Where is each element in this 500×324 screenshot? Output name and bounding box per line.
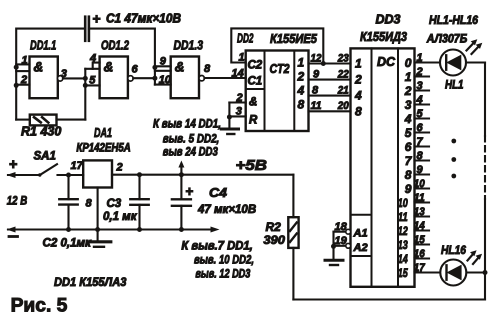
svg-text:8: 8 — [204, 63, 211, 75]
wire DD3 output 5 stub pin 6 — [415, 131, 430, 133]
svg-text:DD1.1: DD1.1 — [30, 39, 56, 53]
resistor R2 — [263, 217, 298, 248]
LED HL16 — [415, 245, 486, 286]
svg-text:14: 14 — [232, 68, 244, 80]
svg-text:13: 13 — [414, 206, 425, 218]
svg-text:0: 0 — [405, 56, 412, 70]
svg-text:15: 15 — [398, 266, 408, 280]
svg-text:DD3: DD3 — [376, 13, 401, 27]
svg-text:R1 430: R1 430 — [21, 125, 61, 139]
svg-text:&: & — [104, 60, 114, 75]
ground DD2 R inputs — [221, 129, 238, 134]
pin 3 DD1.1 output bubble — [58, 68, 67, 81]
svg-text:6: 6 — [417, 122, 424, 134]
svg-text:21: 21 — [337, 84, 349, 96]
terminal -12V arrow and minus rail — [7, 227, 220, 233]
svg-text:4: 4 — [416, 94, 423, 106]
wire DD1.2 out to DD1.3 in — [133, 77, 155, 79]
pin 6 DD1.2 output bubble — [128, 64, 139, 82]
svg-text:14: 14 — [398, 252, 408, 266]
wire DD2 feedback loop (pin 12 to pin 1) — [231, 28, 323, 63]
svg-text:17: 17 — [71, 160, 84, 172]
svg-text:SA1: SA1 — [34, 151, 56, 163]
svg-text:2: 2 — [116, 162, 123, 174]
chip DD2 body — [246, 51, 309, 132]
node junction DD1.3 inputs — [152, 65, 157, 70]
pin 18 DD3 — [334, 221, 351, 234]
capacitor C2 — [43, 175, 93, 250]
wire bottom return to R2 — [293, 298, 485, 300]
pin 4 DD1.2 — [89, 53, 100, 69]
wire DD3 output 14 stub pin 16 — [415, 257, 430, 259]
wire DD3 output 3 stub pin 4 — [415, 103, 430, 105]
pin 2 DD1.1 — [16, 71, 29, 86]
wire DD1.3 out to DD2 C1 — [204, 77, 245, 79]
terminal +12V arrow — [7, 172, 40, 178]
svg-text:12 B: 12 B — [7, 196, 27, 208]
svg-text:11: 11 — [414, 192, 425, 204]
svg-text:2: 2 — [297, 70, 305, 84]
switch SA1 — [34, 151, 58, 177]
svg-text:9: 9 — [417, 164, 424, 176]
svg-text:3: 3 — [405, 98, 412, 112]
wire DD3 output 9 stub pin 10 — [415, 187, 430, 189]
svg-text:2: 2 — [416, 66, 423, 78]
svg-text:&: & — [249, 97, 257, 109]
wire DD3 output 12 stub pin 14 — [415, 229, 430, 231]
pin 9 DD1.3 — [155, 56, 171, 68]
svg-text:1: 1 — [355, 57, 362, 71]
svg-text:выв. 5 DD2,: выв. 5 DD2, — [163, 134, 220, 146]
wire R2 to bottom return — [292, 248, 294, 300]
svg-text:6: 6 — [132, 64, 139, 76]
gate DD1.3 body — [171, 57, 199, 99]
wire R1 right — [57, 119, 86, 121]
label minus — [9, 235, 18, 238]
svg-text:КР142ЕН5А: КР142ЕН5А — [76, 143, 130, 155]
wire DD3 output 11 stub pin 13 — [415, 215, 430, 217]
svg-text:C3: C3 — [107, 198, 122, 210]
svg-text:22: 22 — [337, 68, 349, 80]
chip DD3 body — [351, 48, 415, 286]
svg-text:OD1.2: OD1.2 — [101, 39, 129, 53]
wire R1 left — [16, 119, 30, 121]
svg-text:8: 8 — [405, 168, 412, 182]
svg-text:5: 5 — [417, 108, 424, 120]
wire DD3 output 4 stub pin 5 — [415, 117, 430, 119]
svg-text:К выв 14 DD1,: К выв 14 DD1, — [153, 119, 221, 131]
svg-text:A1: A1 — [353, 228, 368, 240]
wire DD2 out 11 to DD3 in 20 — [309, 110, 351, 112]
wire DD2 out 9 to DD3 in 22 — [309, 79, 351, 81]
wire DD3 output 8 stub pin 9 — [415, 173, 430, 175]
LED HL1 — [415, 50, 486, 92]
svg-text:Рис. 5: Рис. 5 — [11, 296, 68, 317]
svg-text:DD2: DD2 — [237, 32, 254, 46]
svg-text:4: 4 — [404, 112, 412, 126]
wire LED anode bus — [484, 63, 486, 300]
wire DD2 out 8 to DD3 in 21 — [309, 95, 351, 97]
capacitor C1 — [85, 11, 181, 41]
svg-text:A2: A2 — [353, 242, 368, 254]
wire DD3 output 7 stub pin 8 — [415, 159, 430, 161]
svg-text:К выв.7 DD1,: К выв.7 DD1, — [181, 241, 252, 253]
wire SA1 to DA1 — [58, 174, 84, 176]
svg-text:2: 2 — [20, 74, 27, 86]
svg-text:DC: DC — [377, 55, 396, 69]
svg-text:8: 8 — [417, 150, 424, 162]
svg-text:0,1 мк: 0,1 мк — [103, 211, 138, 223]
wire top-left rail — [16, 29, 85, 120]
wire A1 A2 to ground — [332, 232, 334, 259]
svg-text:8: 8 — [298, 98, 305, 112]
svg-text:12: 12 — [398, 224, 408, 238]
svg-text:C4: C4 — [209, 185, 228, 200]
svg-text:8: 8 — [355, 104, 362, 118]
wire DD3 output 13 stub pin 15 — [415, 243, 430, 245]
svg-text:HL1: HL1 — [445, 80, 464, 92]
svg-text:+5B: +5B — [236, 157, 268, 174]
node junction DD1.2 input — [83, 76, 88, 81]
gate DD1.2 body — [100, 57, 128, 99]
svg-text:C2 0,1мк: C2 0,1мк — [43, 238, 93, 250]
pin 8 DD1.3 output bubble — [199, 63, 211, 81]
svg-text:АЛ307Б: АЛ307Б — [426, 34, 467, 46]
svg-text:HL1-HL16: HL1-HL16 — [429, 15, 479, 27]
svg-text:2: 2 — [404, 84, 412, 98]
pin 10 DD1.3 — [155, 71, 172, 86]
svg-text:C1 47мк×10B: C1 47мк×10B — [106, 12, 181, 26]
wire DD1.1 out to DD1.2 in — [63, 77, 85, 79]
svg-text:К155ИЕ5: К155ИЕ5 — [270, 32, 318, 46]
svg-text:47 мк×10B: 47 мк×10B — [197, 204, 256, 216]
svg-text:+: + — [186, 184, 194, 199]
wire DD2 R inputs to ground — [228, 103, 230, 128]
svg-text:5: 5 — [405, 126, 412, 140]
svg-text:20: 20 — [337, 100, 350, 112]
regulator DA1 — [71, 126, 131, 210]
svg-text:3: 3 — [236, 106, 242, 118]
svg-text:6: 6 — [405, 140, 412, 154]
wire DD3 output 1 stub pin 2 — [415, 75, 430, 77]
svg-text:15: 15 — [414, 234, 426, 246]
svg-text:10: 10 — [414, 178, 426, 190]
svg-text:R: R — [249, 115, 258, 127]
svg-text:&: & — [175, 60, 185, 75]
svg-text:DA1: DA1 — [94, 126, 112, 140]
svg-text:1: 1 — [298, 56, 305, 70]
svg-text:1: 1 — [405, 70, 412, 84]
svg-text:&: & — [34, 60, 44, 75]
svg-text:11: 11 — [311, 100, 322, 112]
svg-text:HL16: HL16 — [441, 245, 467, 257]
node +5V rail — [112, 174, 293, 176]
svg-text:23: 23 — [337, 52, 349, 64]
svg-text:C2: C2 — [248, 60, 263, 72]
gate DD1.1 body — [30, 57, 58, 99]
wire +5V down to R2 — [292, 175, 294, 218]
capacitor C4 — [172, 175, 256, 230]
svg-text:+: + — [93, 11, 101, 27]
wire vertical node DD1.2 inputs to R1 — [84, 69, 86, 120]
wire DD3 output 6 stub pin 7 — [415, 145, 430, 147]
svg-text:+: + — [9, 157, 17, 173]
svg-text:2: 2 — [354, 73, 362, 87]
resistor R1 — [21, 115, 61, 139]
svg-text:13: 13 — [398, 238, 408, 252]
svg-text:CT2: CT2 — [270, 62, 290, 76]
svg-text:14: 14 — [414, 220, 425, 232]
svg-text:10: 10 — [398, 196, 408, 210]
svg-text:8: 8 — [86, 198, 93, 210]
svg-text:выв. 12 DD3: выв. 12 DD3 — [195, 269, 250, 281]
svg-text:C1: C1 — [248, 76, 263, 88]
svg-text:К155ИД3: К155ИД3 — [360, 30, 407, 44]
capacitor C3 — [103, 175, 149, 230]
wire C1 to DD1.3 input — [89, 29, 155, 85]
node junction pins 1-2 — [14, 65, 19, 70]
pin 3 DD2 — [229, 106, 245, 118]
wire DD3 output 2 stub pin 3 — [415, 89, 430, 91]
svg-text:4: 4 — [354, 89, 362, 103]
pin 1 DD1.1 — [16, 55, 29, 67]
svg-text:12: 12 — [311, 52, 322, 64]
svg-text:3: 3 — [417, 80, 423, 92]
LED arrows АЛ307Б — [467, 39, 483, 54]
ellipsis omitted LEDs — [451, 139, 456, 179]
node junction HL16 bus — [483, 270, 488, 275]
svg-text:4: 4 — [297, 84, 305, 98]
svg-text:11: 11 — [398, 210, 408, 224]
power arrow to DD supply pins — [178, 161, 184, 175]
svg-text:выв. 10 DD2,: выв. 10 DD2, — [194, 255, 254, 267]
pin 19 DD3 — [334, 235, 351, 248]
svg-text:8: 8 — [312, 84, 319, 96]
svg-text:7: 7 — [417, 136, 424, 148]
svg-text:1: 1 — [239, 52, 245, 64]
svg-text:9: 9 — [313, 68, 320, 80]
node junction feedback pin12 — [321, 61, 326, 66]
wire DD3 output 10 stub pin 11 — [415, 201, 430, 203]
svg-text:16: 16 — [414, 248, 426, 260]
wire DD2 out 12 to DD3 in 23 — [309, 62, 351, 64]
svg-text:5: 5 — [89, 75, 96, 87]
pin 5 DD1.2 — [85, 69, 99, 87]
svg-text:DD1.3: DD1.3 — [174, 39, 204, 53]
ground DD3 A inputs — [325, 260, 343, 265]
wire DA1 ground pin — [97, 188, 99, 241]
svg-text:390: 390 — [263, 233, 285, 247]
svg-text:выв 24 DD3: выв 24 DD3 — [163, 147, 218, 159]
ground DA1 — [88, 242, 111, 247]
svg-text:DD1 К155ЛА3: DD1 К155ЛА3 — [54, 277, 127, 289]
svg-text:9: 9 — [405, 182, 412, 196]
svg-text:R2: R2 — [266, 220, 282, 234]
pin 2 DD2 — [229, 92, 245, 104]
